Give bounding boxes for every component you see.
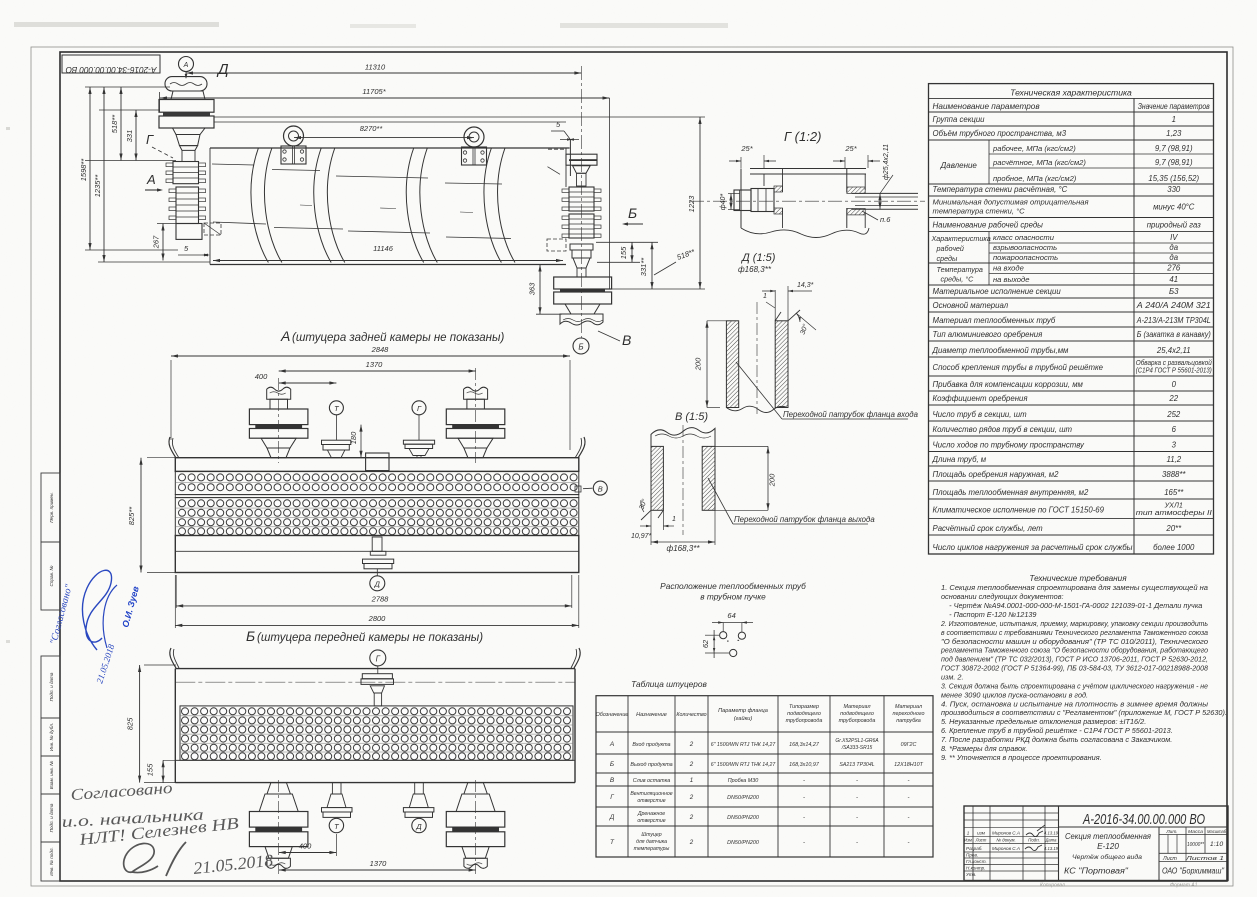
nozzle G callout [412,401,426,415]
svg-text:"О безопасности машин и об: "О безопасности машин и оборудования" (Т… [941,637,1208,646]
svg-text:1:10: 1:10 [1210,841,1223,848]
svg-text:(штуцера задней камеры не пока: (штуцера задней камеры не показаны) [292,332,504,344]
svg-text:41: 41 [1169,275,1178,284]
svg-text:20**: 20** [1165,524,1182,533]
svg-text:(гайки): (гайки) [734,715,753,722]
scan artifacts top [14,22,219,27]
svg-text:на входе: на входе [993,264,1024,273]
big nozzle gasket [255,425,302,429]
svg-text:Г: Г [146,132,154,147]
svg-text:11146: 11146 [373,244,394,253]
svg-text:трубопровода: трубопровода [786,718,823,724]
svg-text:Вход продукта: Вход продукта [632,742,670,748]
svg-text:Листов 1: Листов 1 [1184,856,1224,862]
svg-text:2: 2 [689,761,694,768]
svg-text:-: - [856,795,858,801]
big nozzle flange 1 [446,409,505,425]
tube field view B [180,706,573,760]
svg-text:Штуцер: Штуцер [641,832,661,838]
rear chamber hidden lines [548,167,561,175]
svg-text:1370: 1370 [370,859,388,868]
front chamber hatched box 1 [173,162,199,184]
dim f40 [728,193,740,195]
svg-text:Б (закатка в канавку): Б (закатка в канавку) [1137,330,1211,339]
svg-text:Группа секции: Группа секции [933,115,986,124]
dim 200 D [706,321,708,408]
right dims 1223 155 331 518 363 [699,117,701,289]
pencil handwriting approvals [61,780,274,878]
svg-text:09Г2С: 09Г2С [901,742,917,748]
callout inlet adapter [736,362,782,419]
svg-text:ф40*: ф40* [720,194,727,211]
blue signature squiggle [82,570,111,650]
svg-text:Техническая характеристика: Техническая характеристика [1010,88,1132,98]
svg-text:пожароопасность: пожароопасность [993,253,1058,262]
dim 400 view B [279,852,337,854]
svg-text:Вентиляционное: Вентиляционное [630,791,672,797]
svg-text:Площадь оребрения наружная, м2: Площадь оребрения наружная, м2 [933,470,1060,479]
svg-text:Миронов С.А: Миронов С.А [992,846,1020,851]
svg-text:10,97*: 10,97* [631,533,652,540]
svg-text:Наименование рабочей среды: Наименование рабочей среды [933,221,1044,230]
svg-text:да: да [1169,243,1178,252]
nozzle table (tablitsa shtutserov) [596,679,933,857]
svg-text:среды: среды [937,254,958,263]
nozzle T callout [329,401,343,415]
big designation cell [1058,806,1060,881]
big nozzle gasket down [452,827,499,832]
name cell [1158,827,1160,881]
svg-text:температура стенки, °С: температура стенки, °С [933,207,1026,216]
dim 200 V [767,446,769,510]
svg-text:9,7 (98,91): 9,7 (98,91) [1155,158,1193,167]
svg-text:А-213/А-213М ТР304L: А-213/А-213М ТР304L [1136,316,1211,325]
dim 2788 [176,605,572,607]
svg-text:Объём трубного пространства, м: Объём трубного пространства, м3 [933,129,1067,138]
svg-text:А-2016-34.00.00.000 ВО: А-2016-34.00.00.000 ВО [65,65,157,74]
dim 8270 [294,137,474,139]
lit massa masshtab [1159,834,1228,836]
VIEW A: end view, rear chamber nozzles hidden [127,345,607,628]
svg-text:168,3х10,97: 168,3х10,97 [789,762,820,768]
DETAIL V 1:5 outlet flange adapter [631,411,875,553]
svg-text:Г: Г [610,794,614,801]
svg-text:Основной материал: Основной материал [933,301,1009,310]
svg-text:1: 1 [967,831,970,836]
bundle S-break curves [251,148,268,263]
nozzle G flange [362,674,392,679]
svg-text:подводящего: подводящего [787,711,821,717]
rear nozzle centerline [580,66,582,338]
DETAIL G 1:2 tube to tubesheet joint [690,129,925,238]
svg-text:Количество: Количество [676,712,706,718]
svg-text:тип атмосферы II: тип атмосферы II [1136,508,1212,517]
svg-text:0: 0 [1172,380,1177,389]
big nozzle reducer down [265,847,292,859]
svg-text:11310: 11310 [365,63,386,72]
dim 400 [279,382,337,384]
rear nozzle big flange stack [554,277,612,289]
big nozzle taper from body [464,783,487,794]
bundle internal lines [212,164,254,165]
tube zone 1 [175,471,579,494]
svg-text:Значение параметров: Значение параметров [1138,102,1211,111]
big nozzle flange 1 down [446,812,505,828]
big nozzle flange 1 [249,409,308,425]
svg-text:класс опасности: класс опасности [993,233,1055,242]
rear chamber hatched boxes [569,187,594,211]
svg-text:(С1Р4 ГОСТ Р 55601-2013): (С1Р4 ГОСТ Р 55601-2013) [1136,366,1212,375]
bundle upper frame line [214,121,566,123]
big signature flourish [124,843,158,872]
svg-text:200: 200 [768,473,777,487]
svg-text:Н.контр.: Н.контр. [966,866,985,871]
technical characteristics table [929,84,1214,554]
svg-text:Г (1:2): Г (1:2) [784,129,821,144]
svg-text:изм. 2.: изм. 2. [941,673,964,682]
svg-text:Подп. и дата: Подп. и дата [49,803,54,832]
svg-text:природный газ: природный газ [1147,221,1201,230]
TOP VIEW: side elevation of heat exchanger section [79,57,705,355]
svg-text:(штуцера передней камеры не по: (штуцера передней камеры не показаны) [257,632,483,644]
DETAIL D 1:5 inlet flange adapter [694,252,919,419]
svg-text:Параметр фланца: Параметр фланца [718,708,768,714]
svg-text:ОАО "Борхиммаш": ОАО "Борхиммаш" [1162,867,1225,876]
svg-text:Перв. примен.: Перв. примен. [49,492,54,523]
svg-text:А: А [609,741,614,748]
svg-text:Д: Д [415,822,422,831]
svg-text:200: 200 [694,357,703,371]
svg-text:Переходной патрубок фланца вхо: Переходной патрубок фланца входа [783,410,919,419]
svg-text:825**: 825** [127,506,136,525]
tube bundle bottom dim line 11146 [213,260,563,262]
svg-text:Взам. инв. №: Взам. инв. № [49,761,54,789]
svg-text:отверстие: отверстие [637,818,665,824]
signature squiggles [1025,845,1042,851]
svg-text:менее 3090 циклов пуска-остано: менее 3090 циклов пуска-остановки в год. [941,690,1088,699]
flare 30deg [788,310,800,321]
svg-text:Б: Б [578,343,583,352]
svg-text:А 240/А 240М 321: А 240/А 240М 321 [1136,301,1211,310]
svg-text:Gr.X52PSL1-GR6A: Gr.X52PSL1-GR6A [835,738,879,744]
svg-text:6" 1500/WN RTJ ТНК 14,27: 6" 1500/WN RTJ ТНК 14,27 [711,742,777,748]
svg-text:под давлением" (ТР ТС 032/: под давлением" (ТР ТС 032/2013), ГОСТ Р … [941,655,1208,664]
dim 62 [705,634,719,636]
svg-text:А-2016-34.00.00.000 ВО: А-2016-34.00.00.000 ВО [1082,811,1205,828]
svg-text:2788: 2788 [371,595,390,604]
rear nozzle wavy cap [560,314,603,325]
svg-text:взрывоопасность: взрывоопасность [993,243,1057,252]
svg-text:Изм: Изм [964,838,972,843]
svg-text:Формат А1: Формат А1 [1170,883,1198,889]
svg-text:Давление: Давление [940,161,978,170]
svg-text:Чертёж общего вида: Чертёж общего вида [1072,853,1142,861]
left nozzle gasket ring [163,112,210,116]
svg-text:-: - [803,815,805,821]
svg-text:Д: Д [216,61,229,78]
body sides [174,669,176,783]
big nozzle flange 2 down [249,832,308,847]
hidden contour box [204,223,221,235]
svg-text:-: - [856,815,858,821]
svg-text:1,23: 1,23 [1166,129,1182,138]
dim 825 view A [140,458,142,573]
dim 1370 [279,370,476,372]
big nozzle neck [270,399,288,409]
dim f25.4x2.11 [879,193,881,209]
tube lines [852,192,918,194]
svg-text:331**: 331** [639,257,648,276]
big nozzle reducer down [462,847,489,859]
lifting eye oval (left nozzle top) [165,77,207,91]
svg-text:Б: Б [610,761,614,768]
svg-text:SA213 TP304L: SA213 TP304L [839,762,874,768]
svg-text:ф168,3**: ф168,3** [667,544,701,553]
svg-text:В: В [598,484,603,493]
svg-text:-: - [908,778,910,784]
divider band [175,495,579,498]
left nozzle neck [171,91,205,100]
left tubesheet walls [740,169,742,229]
svg-text:14,3*: 14,3* [797,282,814,289]
svg-text:В: В [622,332,631,348]
svg-text:Диаметр теплообменной трубы,мм: Диаметр теплообменной трубы,мм [932,346,1070,355]
svg-text:IV: IV [1170,233,1178,242]
bottom band line [175,759,575,761]
svg-text:Количество рядов труб в секции: Количество рядов труб в секции, шт [933,425,1073,434]
svg-text:- Чертёж №А94.0001-000-000-М-: - Чертёж №А94.0001-000-000-М-1501-ГА-000… [941,601,1202,610]
big nozzle reducer [261,438,296,448]
svg-text:Копировал: Копировал [1040,883,1065,889]
svg-text:Разраб.: Разраб. [966,846,983,851]
svg-text:64: 64 [727,611,735,620]
top plates [750,168,866,170]
svg-text:Длина труб, м: Длина труб, м [932,455,987,464]
svg-text:Число циклов нагружения за рас: Число циклов нагружения за расчетный сро… [933,543,1133,552]
svg-text:Климатическое исполнение по ГО: Климатическое исполнение по ГОСТ 15150-6… [933,506,1105,515]
svg-text:среды, °С: среды, °С [941,275,975,284]
rear nozzle lower small flanges [570,244,593,250]
svg-text:Наименование параметров: Наименование параметров [933,102,1041,111]
left vertical dims 1598 1235 518 331 [89,87,91,250]
svg-text:1. Секция теплообменная спр: 1. Секция теплообменная спроектирована д… [941,583,1208,592]
tube rows zone 1 [179,474,578,481]
svg-text:Д: Д [609,814,615,821]
view A callout circle [179,57,194,72]
svg-text:400: 400 [255,372,268,381]
big nozzle flange 2 [249,429,308,439]
hex plug [734,190,751,211]
svg-text:Технические требования: Технические требования [1029,574,1127,583]
svg-text:-: - [908,840,910,846]
svg-text:9,7 (98,91): 9,7 (98,91) [1155,144,1193,153]
technical requirements text block [940,574,1227,762]
right corner hook B [574,648,580,668]
svg-text:1223: 1223 [687,195,696,213]
svg-text:168,3х14,27: 168,3х14,27 [789,742,820,748]
svg-text:А: А [146,172,156,187]
note p6 [862,211,878,220]
svg-text:Секция теплообменная: Секция теплообменная [1065,832,1152,841]
tube bundle top edge [210,147,570,149]
svg-text:Б3: Б3 [1169,287,1179,296]
svg-text:1: 1 [690,777,693,784]
svg-text:1: 1 [672,516,676,523]
svg-text:рабочей: рабочей [936,244,964,253]
extension line for 1223 [214,116,705,118]
svg-text:Обозначение: Обозначение [596,712,629,718]
svg-text:Лист: Лист [975,838,987,843]
right corner hook [578,437,585,458]
dim f168.3 V [650,530,652,545]
svg-text:252: 252 [1166,410,1181,419]
left nozzle flange 1 [159,100,214,113]
detail G centerline [690,200,925,202]
svg-text:Назначение: Назначение [636,712,667,718]
svg-text:4.13.19: 4.13.19 [1044,831,1059,836]
nozzle D down [415,783,424,794]
tube joint hatch right [847,187,865,193]
nozzle G flange [403,440,434,444]
svg-text:Справ. №: Справ. № [49,566,54,587]
nozzle T down [332,783,341,794]
wavy break bottom [741,228,869,238]
svg-text:КС "Портовая": КС "Портовая" [1064,867,1129,876]
big nozzle neck [467,399,485,409]
svg-text:Слив остатка: Слив остатка [633,778,670,784]
svg-text:2: 2 [689,839,694,846]
svg-text:Пров.: Пров. [966,853,978,858]
big nozzle gasket [452,425,499,429]
wavy top cap V [651,428,715,447]
svg-text:пробное, МПа (кгс/см2): пробное, МПа (кгс/см2) [993,174,1077,183]
nozzle T flange [322,440,351,444]
dim 267 [162,224,164,261]
svg-text:Материал: Материал [843,704,870,710]
svg-text:3: 3 [1172,441,1177,450]
front chamber hatched box 2 [176,187,199,224]
svg-text:155: 155 [619,246,628,259]
tube circles layout [720,632,727,639]
svg-text:Расчётный срок службы, лет: Расчётный срок службы, лет [933,524,1044,533]
svg-text:25*: 25* [740,144,753,153]
svg-text:А: А [183,62,189,69]
svg-text:подводящего: подводящего [840,711,874,717]
svg-text:расчётное, МПа (кгс/см2): расчётное, МПа (кгс/см2) [992,158,1086,167]
svg-text:276: 276 [1166,264,1181,273]
lower chamber band [175,536,579,573]
big nozzle gasket down [255,827,302,832]
svg-text:Число ходов по трубному простр: Число ходов по трубному пространству [933,441,1086,450]
svg-text:DN50/PN200: DN50/PN200 [727,840,759,846]
svg-text:отверстие: отверстие [637,798,665,804]
tube zone 2 [175,498,579,536]
svg-text:8270**: 8270** [360,124,384,133]
svg-text:производиться в соответствии с: производиться в соответствии с "Регламен… [941,708,1227,717]
left corner hook B [170,648,176,668]
left nozzle reducer [173,128,206,135]
svg-text:155: 155 [146,763,155,776]
big nozzle wavy cap down [464,858,487,868]
big nozzle wavy cap down [267,858,290,868]
title block (osnovnaya nadpis) [964,806,1228,889]
svg-text:Гл.конст.: Гл.конст. [966,859,987,864]
wavy bottom D [726,406,787,412]
svg-text:рабочее, МПа (кгс/см2): рабочее, МПа (кгс/см2) [992,144,1076,153]
body top edge [175,668,575,670]
svg-text:2800: 2800 [368,614,387,623]
svg-text:25*: 25* [844,144,857,153]
svg-text:3. Секция должна быть спроект: 3. Секция должна быть спроектирована с у… [941,681,1208,690]
svg-text:9. ** Уточняется в процессе п: 9. ** Уточняется в процессе проектирован… [941,753,1102,762]
dim 2848 [171,355,570,357]
svg-text:на выходе: на выходе [993,275,1029,284]
svg-text:Коэффициент оребрения: Коэффициент оребрения [933,394,1029,403]
svg-text:8. *Размеры для справок.: 8. *Размеры для справок. [941,744,1028,753]
svg-text:Выход продукта: Выход продукта [630,762,672,768]
svg-text:12Х18Н10Т: 12Х18Н10Т [894,762,923,768]
dim 2800 [175,624,579,626]
svg-text:1: 1 [763,293,767,300]
svg-text:2: 2 [689,741,694,748]
svg-text:2: 2 [689,814,694,821]
svg-text:ГОСТ 30872-2002 (ГОСТ Р 51364: ГОСТ 30872-2002 (ГОСТ Р 51364-99), ПБ 03… [941,664,1209,673]
big nozzle wavy cap [464,387,488,399]
svg-text:400: 400 [299,842,312,851]
svg-text:2. Изготовление, испытания, п: 2. Изготовление, испытания, приемку, мар… [940,619,1208,628]
svg-text:4. Пуск, остановка и испыт: 4. Пуск, остановка и испытание на плотно… [941,699,1209,708]
svg-text:22: 22 [1168,394,1178,403]
svg-text:-: - [803,795,805,801]
svg-text:267: 267 [152,235,161,249]
svg-text:Температура: Температура [937,265,983,274]
table main divider [1133,98,1135,554]
dim 155 view B [162,760,164,782]
svg-text:п.6: п.6 [880,215,891,224]
svg-text:-: - [908,815,910,821]
svg-text:62: 62 [701,639,710,648]
lifting lug 1 [284,126,304,146]
svg-text:В: В [610,777,615,784]
dim 11705* [160,97,610,99]
nozzle D below body [372,537,382,551]
svg-text:Минимальная допустимая отрицат: Минимальная допустимая отрицательная [933,198,1089,207]
dim 825 view B [139,665,141,783]
VIEW B: end view, front chamber nozzles hidden [126,648,581,874]
svg-text:-: - [803,778,805,784]
svg-text:№ докум.: № докум. [996,838,1015,843]
svg-text:180: 180 [349,431,358,444]
svg-text:Подп. и дата: Подп. и дата [49,672,54,701]
svg-text:Дата: Дата [1044,838,1057,843]
svg-text:6" 1500/WN RTJ ТНК 14,27: 6" 1500/WN RTJ ТНК 14,27 [711,762,777,768]
svg-text:Пробка М30: Пробка М30 [728,778,758,784]
svg-text:15,35 (156,52): 15,35 (156,52) [1148,174,1199,183]
svg-text:Материал: Материал [895,704,922,710]
right tubesheet wall [846,169,848,193]
svg-text:основании следующих документов: основании следующих документов: [941,592,1064,601]
svg-text:11705*: 11705* [362,87,386,96]
svg-text:Масштаб: Масштаб [1207,829,1226,835]
svg-text:Утв.: Утв. [966,872,976,877]
left nozzle flange 2 [159,116,214,128]
svg-text:Температура стенки расчётная,: Температура стенки расчётная, °С [933,185,1068,194]
dim 1370 view B [279,869,476,871]
front chamber body [176,224,202,240]
svg-text:Число труб в секции, шт: Число труб в секции, шт [933,410,1028,419]
big nozzle flange 1 down [249,812,308,828]
callout outlet adapter [708,478,733,524]
